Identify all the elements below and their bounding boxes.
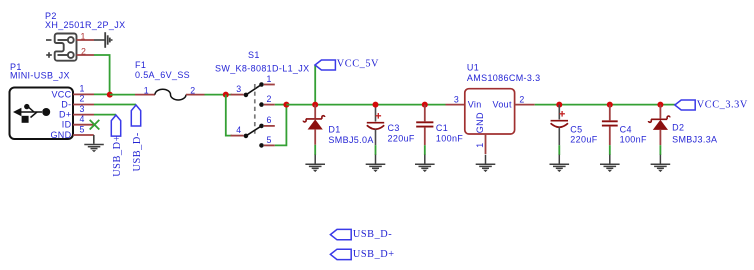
fuse F1 element <box>155 89 186 100</box>
junction node F1 / S1 <box>223 92 229 98</box>
svg-text:ID: ID <box>62 120 72 130</box>
svg-text:1: 1 <box>475 143 485 148</box>
junction node C5 <box>556 102 562 108</box>
F1 pin 1 stub <box>135 94 155 96</box>
ground under C4 <box>600 155 620 172</box>
wire output node down to S1 pin 5 <box>275 105 287 146</box>
capacitor C3 plus sign <box>376 113 382 119</box>
svg-text:2: 2 <box>519 95 524 105</box>
USB icon inside P1 <box>19 107 42 117</box>
P2 pin 1 stub <box>77 39 95 41</box>
junction node D2 <box>657 102 663 108</box>
svg-text:GND: GND <box>50 130 71 140</box>
wire 5V rail S1 to U1 <box>286 104 445 106</box>
capacitor C4 <box>602 105 618 146</box>
wire VCC node to F1 <box>110 94 135 96</box>
S1 pin 5 contact dot <box>259 143 264 148</box>
S1 pin 3 contact dot <box>244 93 249 98</box>
svg-text:SMBJ5.0A: SMBJ5.0A <box>328 135 373 145</box>
wire D2 to ground <box>659 145 661 155</box>
connector P2 body <box>55 34 77 61</box>
svg-text:5: 5 <box>267 135 272 145</box>
svg-text:VCC_3.3V: VCC_3.3V <box>697 99 748 110</box>
svg-text:100nF: 100nF <box>436 134 463 144</box>
net flag USB_D- (floating) <box>330 229 351 239</box>
diode D1 (TVS) <box>303 105 324 145</box>
wire C3 to ground <box>375 145 377 155</box>
ground symbol under P1 <box>84 145 104 149</box>
svg-text:D-: D- <box>61 100 71 110</box>
S1 pin 2 contact dot <box>259 102 264 107</box>
svg-text:USB_D-: USB_D- <box>353 229 392 240</box>
ground under C5 <box>550 155 570 172</box>
net flag USB_D+ (vertical) <box>111 115 120 136</box>
svg-text:USB_D-: USB_D- <box>132 132 143 171</box>
junction node C1 <box>422 102 428 108</box>
capacitor C1 <box>416 105 433 146</box>
wire U1 Vout to C5 node <box>535 104 560 106</box>
P2 pin 2 stub <box>77 54 95 56</box>
S1 lever pole A (3 to 1) <box>246 85 262 95</box>
regulator U1 body <box>465 89 515 134</box>
S1 pin 1 contact dot <box>259 82 264 87</box>
U1 pin 3 stub (Vin) <box>446 104 465 106</box>
svg-text:3: 3 <box>454 95 459 105</box>
svg-text:XH_2501R_2P_JX: XH_2501R_2P_JX <box>45 20 125 30</box>
svg-text:MINI-USB_JX: MINI-USB_JX <box>10 70 70 80</box>
junction node S1 output <box>283 102 289 108</box>
wire C5 to ground <box>558 145 560 155</box>
net flag USB_D- (vertical) <box>131 105 140 126</box>
svg-text:2: 2 <box>267 94 272 104</box>
S1 mechanical link (dashed) <box>254 84 256 134</box>
U1 pin 2 stub (Vout) <box>515 104 535 106</box>
svg-text:USB_D+: USB_D+ <box>353 249 395 260</box>
wire GND pin down to ground <box>93 135 95 144</box>
S1 pin 6 stub <box>264 125 275 127</box>
P1 pin 1 stub (VCC) <box>73 93 94 95</box>
chassis ground (earth, pointing right) <box>105 32 111 48</box>
P1 pin 2 stub (D-) <box>73 104 94 106</box>
svg-text:220uF: 220uF <box>570 134 597 144</box>
junction node C4 <box>607 102 613 108</box>
wire 3.3V rail C5 to flag <box>559 104 675 106</box>
junction node D1 / VCC_5V <box>312 102 318 108</box>
svg-text:GND: GND <box>475 112 485 133</box>
wire C4 to ground <box>609 145 611 155</box>
svg-text:220uF: 220uF <box>388 134 415 144</box>
junction node C3 <box>373 102 379 108</box>
no-connect X on ID pin <box>90 120 100 130</box>
capacitor C5 bottom lead <box>558 127 560 145</box>
svg-text:AMS1086CM-3.3: AMS1086CM-3.3 <box>467 73 541 83</box>
wire P2 pin1 to chassis ground <box>94 39 105 41</box>
P1 pin 5 stub (GND) <box>73 134 94 136</box>
wire F1 to S1 node <box>205 94 233 96</box>
P1 pin 3 stub (D+) <box>73 114 94 116</box>
svg-text:5: 5 <box>80 124 85 134</box>
capacitor C3 bottom lead <box>375 129 377 145</box>
svg-text:4: 4 <box>80 114 85 124</box>
svg-text:S1: S1 <box>248 50 260 60</box>
F1 pin 2 stub <box>186 94 205 96</box>
svg-text:C4: C4 <box>620 125 632 135</box>
svg-text:F1: F1 <box>135 60 146 70</box>
svg-text:3: 3 <box>236 84 241 94</box>
svg-text:U1: U1 <box>467 62 479 72</box>
wire C1 to ground <box>424 145 426 155</box>
P2 plus polarity mark <box>46 52 52 58</box>
junction node P1-VCC / P2 <box>107 92 113 98</box>
capacitor C5 top lead <box>558 105 560 120</box>
S1 pin 4 stub <box>231 135 244 137</box>
svg-text:Vin: Vin <box>468 99 482 109</box>
svg-text:C5: C5 <box>570 125 582 135</box>
wire VCC stub to node <box>94 93 110 95</box>
net flag VCC_3.3V <box>675 100 695 110</box>
svg-text:1: 1 <box>267 74 272 84</box>
ground under C3 <box>366 155 386 172</box>
svg-text:0.5A_6V_SS: 0.5A_6V_SS <box>135 70 190 80</box>
svg-text:D2: D2 <box>672 123 684 133</box>
wire D+ to flag <box>94 114 116 116</box>
svg-text:USB_D+: USB_D+ <box>112 135 123 177</box>
connector P1 body <box>10 88 74 140</box>
svg-text:VCC_5V: VCC_5V <box>337 58 379 69</box>
S1 lever pole B (4 to 6) <box>246 126 262 136</box>
svg-text:D1: D1 <box>328 125 340 135</box>
svg-text:6: 6 <box>267 115 272 125</box>
svg-text:VCC: VCC <box>51 89 71 99</box>
wire D1 to ground <box>314 145 316 155</box>
ground under D1 <box>305 155 325 172</box>
S1 pin 5 stub <box>264 144 275 146</box>
svg-text:Vout: Vout <box>492 99 512 109</box>
U1 pin 1 stub (GND) <box>485 134 487 154</box>
S1 pin 3 stub <box>231 94 244 96</box>
svg-text:100nF: 100nF <box>620 134 647 144</box>
diode D2 (TVS) <box>649 105 670 146</box>
capacitor C5 plates <box>551 121 568 128</box>
capacitor C3 plates <box>367 123 384 130</box>
wire S1 pin 2 to output node <box>275 104 287 106</box>
P1 pin 4 stub (ID) <box>73 124 94 126</box>
S1 pin 4 contact dot <box>244 134 249 139</box>
wire D- to flag <box>94 104 136 106</box>
wire P2 pin2 down to VCC rail <box>94 55 110 95</box>
wire node down to S1 pin 4 <box>226 95 232 136</box>
wire VCC_5V flag drop <box>314 65 316 105</box>
S1 pin 1 stub <box>264 84 275 86</box>
capacitor C3 top lead <box>375 105 377 122</box>
net flag USB_D+ (floating) <box>330 249 351 259</box>
capacitor C5 plus sign <box>559 111 565 117</box>
S1 pin 2 stub <box>264 104 275 106</box>
ground under U1 <box>476 155 496 172</box>
S1 pin 6 contact dot <box>259 124 264 129</box>
svg-text:4: 4 <box>236 125 241 135</box>
svg-text:SW_K8-8081D-L1_JX: SW_K8-8081D-L1_JX <box>215 64 310 74</box>
svg-text:C3: C3 <box>388 123 400 133</box>
svg-text:D+: D+ <box>59 110 71 120</box>
ground under C1 <box>415 155 435 172</box>
svg-text:1: 1 <box>80 84 85 94</box>
net flag VCC_5V <box>315 60 335 70</box>
ground under D2 <box>651 155 671 172</box>
svg-text:C1: C1 <box>436 123 448 133</box>
svg-text:SMBJ3.3A: SMBJ3.3A <box>672 135 717 145</box>
P2 minus polarity mark <box>46 39 52 41</box>
